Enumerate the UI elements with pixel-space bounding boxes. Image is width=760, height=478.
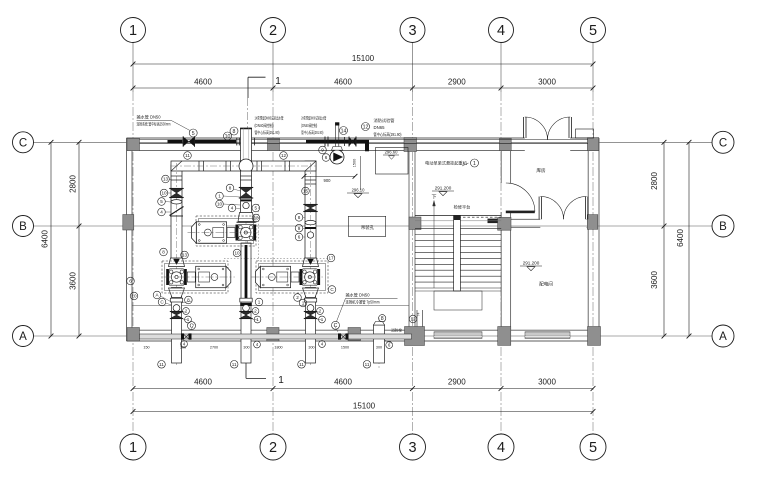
svg-text:13: 13: [182, 253, 188, 258]
svg-text:74: 74: [417, 313, 421, 317]
svg-text:9: 9: [321, 148, 324, 153]
svg-text:1500: 1500: [341, 346, 349, 350]
svg-text:4: 4: [497, 440, 505, 456]
svg-text:3000: 3000: [538, 378, 556, 387]
svg-text:4600: 4600: [194, 78, 212, 87]
svg-text:6400: 6400: [41, 230, 50, 248]
svg-text:3000: 3000: [538, 78, 556, 87]
svg-text:电动单梁式悬挂起重机: 电动单梁式悬挂起重机: [425, 160, 468, 167]
svg-text:291.200: 291.200: [523, 261, 540, 266]
svg-text:2: 2: [296, 295, 299, 300]
svg-text:296.10: 296.10: [352, 188, 365, 193]
svg-text:8: 8: [229, 186, 232, 191]
svg-text:(DN40阀控制): (DN40阀控制): [301, 122, 317, 128]
svg-text:A: A: [719, 331, 727, 343]
svg-text:17: 17: [328, 256, 334, 261]
svg-text:12: 12: [281, 153, 287, 158]
svg-text:2: 2: [269, 23, 277, 39]
svg-text:3: 3: [408, 23, 416, 39]
svg-text:12: 12: [363, 124, 369, 130]
svg-text:B: B: [19, 221, 27, 233]
svg-text:B: B: [719, 221, 727, 233]
svg-text:8: 8: [162, 250, 165, 255]
svg-text:4600: 4600: [334, 78, 352, 87]
svg-text:6400: 6400: [676, 229, 685, 247]
svg-text:10: 10: [131, 294, 137, 299]
svg-text:296.60: 296.60: [385, 150, 398, 155]
svg-text:1: 1: [129, 440, 137, 456]
svg-text:1: 1: [258, 300, 261, 305]
svg-text:6: 6: [325, 155, 328, 160]
svg-text:3: 3: [408, 440, 416, 456]
svg-text:检修平台: 检修平台: [454, 204, 471, 211]
svg-text:1: 1: [129, 23, 137, 39]
svg-text:4600: 4600: [334, 378, 352, 387]
svg-text:11: 11: [232, 362, 237, 367]
svg-text:4: 4: [160, 210, 163, 215]
svg-text:10: 10: [225, 134, 231, 140]
svg-text:管中心标高(291.90): 管中心标高(291.90): [374, 131, 402, 137]
svg-text:10: 10: [217, 202, 223, 207]
svg-text:C: C: [19, 138, 27, 150]
svg-text:2900: 2900: [448, 78, 466, 87]
svg-text:1: 1: [218, 194, 221, 199]
svg-text:1: 1: [275, 76, 281, 87]
svg-text:8: 8: [298, 215, 301, 220]
svg-text:13: 13: [163, 177, 169, 182]
svg-text:连铸系统,管中标高2500mm: 连铸系统,管中标高2500mm: [137, 121, 171, 127]
svg-text:输水管 DN50: 输水管 DN50: [137, 114, 162, 120]
svg-text:11: 11: [159, 362, 164, 367]
svg-text:2: 2: [269, 440, 277, 456]
svg-text:输水管 DN50: 输水管 DN50: [346, 292, 371, 298]
svg-text:C: C: [334, 323, 338, 329]
svg-text:300: 300: [243, 346, 249, 350]
svg-text:配电间: 配电间: [539, 281, 553, 288]
svg-text:291.200: 291.200: [435, 186, 452, 191]
svg-text:15100: 15100: [352, 54, 375, 63]
svg-text:3600: 3600: [69, 272, 78, 290]
svg-text:150: 150: [143, 346, 149, 350]
svg-text:管中心标高(291.90): 管中心标高(291.90): [255, 129, 280, 135]
svg-text:1800: 1800: [274, 346, 282, 350]
svg-text:13: 13: [253, 216, 259, 221]
svg-text:A: A: [19, 331, 27, 343]
svg-text:3600: 3600: [650, 271, 659, 289]
svg-text:6: 6: [129, 279, 132, 284]
svg-text:5: 5: [589, 23, 597, 39]
svg-text:4: 4: [497, 23, 505, 39]
svg-text:4: 4: [231, 206, 234, 211]
svg-text:300: 300: [376, 346, 382, 350]
svg-text:11: 11: [365, 362, 370, 367]
svg-text:1: 1: [278, 375, 284, 386]
svg-text:2900: 2900: [448, 378, 466, 387]
svg-text:1500: 1500: [353, 159, 357, 167]
svg-text:1: 1: [302, 301, 305, 306]
svg-text:2800: 2800: [650, 172, 659, 190]
svg-text:14: 14: [341, 128, 347, 134]
svg-text:10: 10: [161, 191, 167, 196]
svg-text:5: 5: [160, 199, 163, 204]
svg-text:管中心标高(291.90): 管中心标高(291.90): [301, 129, 323, 135]
svg-text:300: 300: [308, 346, 314, 350]
svg-text:9: 9: [298, 226, 301, 231]
svg-text:(DN40阀控制): (DN40阀控制): [255, 122, 274, 128]
svg-text:库房: 库房: [536, 167, 546, 174]
svg-text:2800: 2800: [69, 175, 78, 193]
svg-text:吊装孔: 吊装孔: [361, 224, 375, 231]
svg-text:5: 5: [255, 206, 258, 211]
svg-text:11: 11: [299, 362, 304, 367]
svg-text:DN65: DN65: [374, 125, 386, 130]
svg-text:5: 5: [192, 131, 195, 137]
svg-text:12: 12: [410, 317, 416, 322]
svg-text:6: 6: [298, 235, 301, 240]
svg-text:4600: 4600: [194, 378, 212, 387]
svg-text:10: 10: [234, 251, 240, 256]
svg-text:8: 8: [381, 316, 384, 322]
svg-text:下: 下: [431, 195, 436, 201]
svg-text:8: 8: [233, 129, 236, 135]
svg-text:15: 15: [303, 189, 309, 194]
svg-text:连铸机冷凝管 7p50mm: 连铸机冷凝管 7p50mm: [346, 299, 380, 305]
svg-text:1: 1: [473, 161, 476, 167]
svg-text:消防试验管: 消防试验管: [374, 117, 395, 123]
svg-text:C: C: [719, 138, 727, 150]
svg-text:5: 5: [589, 440, 597, 456]
svg-text:2#泵预留DN80试验出水管: 2#泵预留DN80试验出水管: [301, 115, 326, 121]
svg-text:1#泵预留DN80试验出水管: 1#泵预留DN80试验出水管: [255, 115, 284, 121]
svg-text:2700: 2700: [210, 346, 218, 350]
svg-text:15100: 15100: [353, 402, 376, 411]
svg-text:900: 900: [324, 178, 332, 183]
svg-text:11: 11: [185, 153, 190, 158]
svg-text:消防栓: 消防栓: [391, 328, 402, 333]
